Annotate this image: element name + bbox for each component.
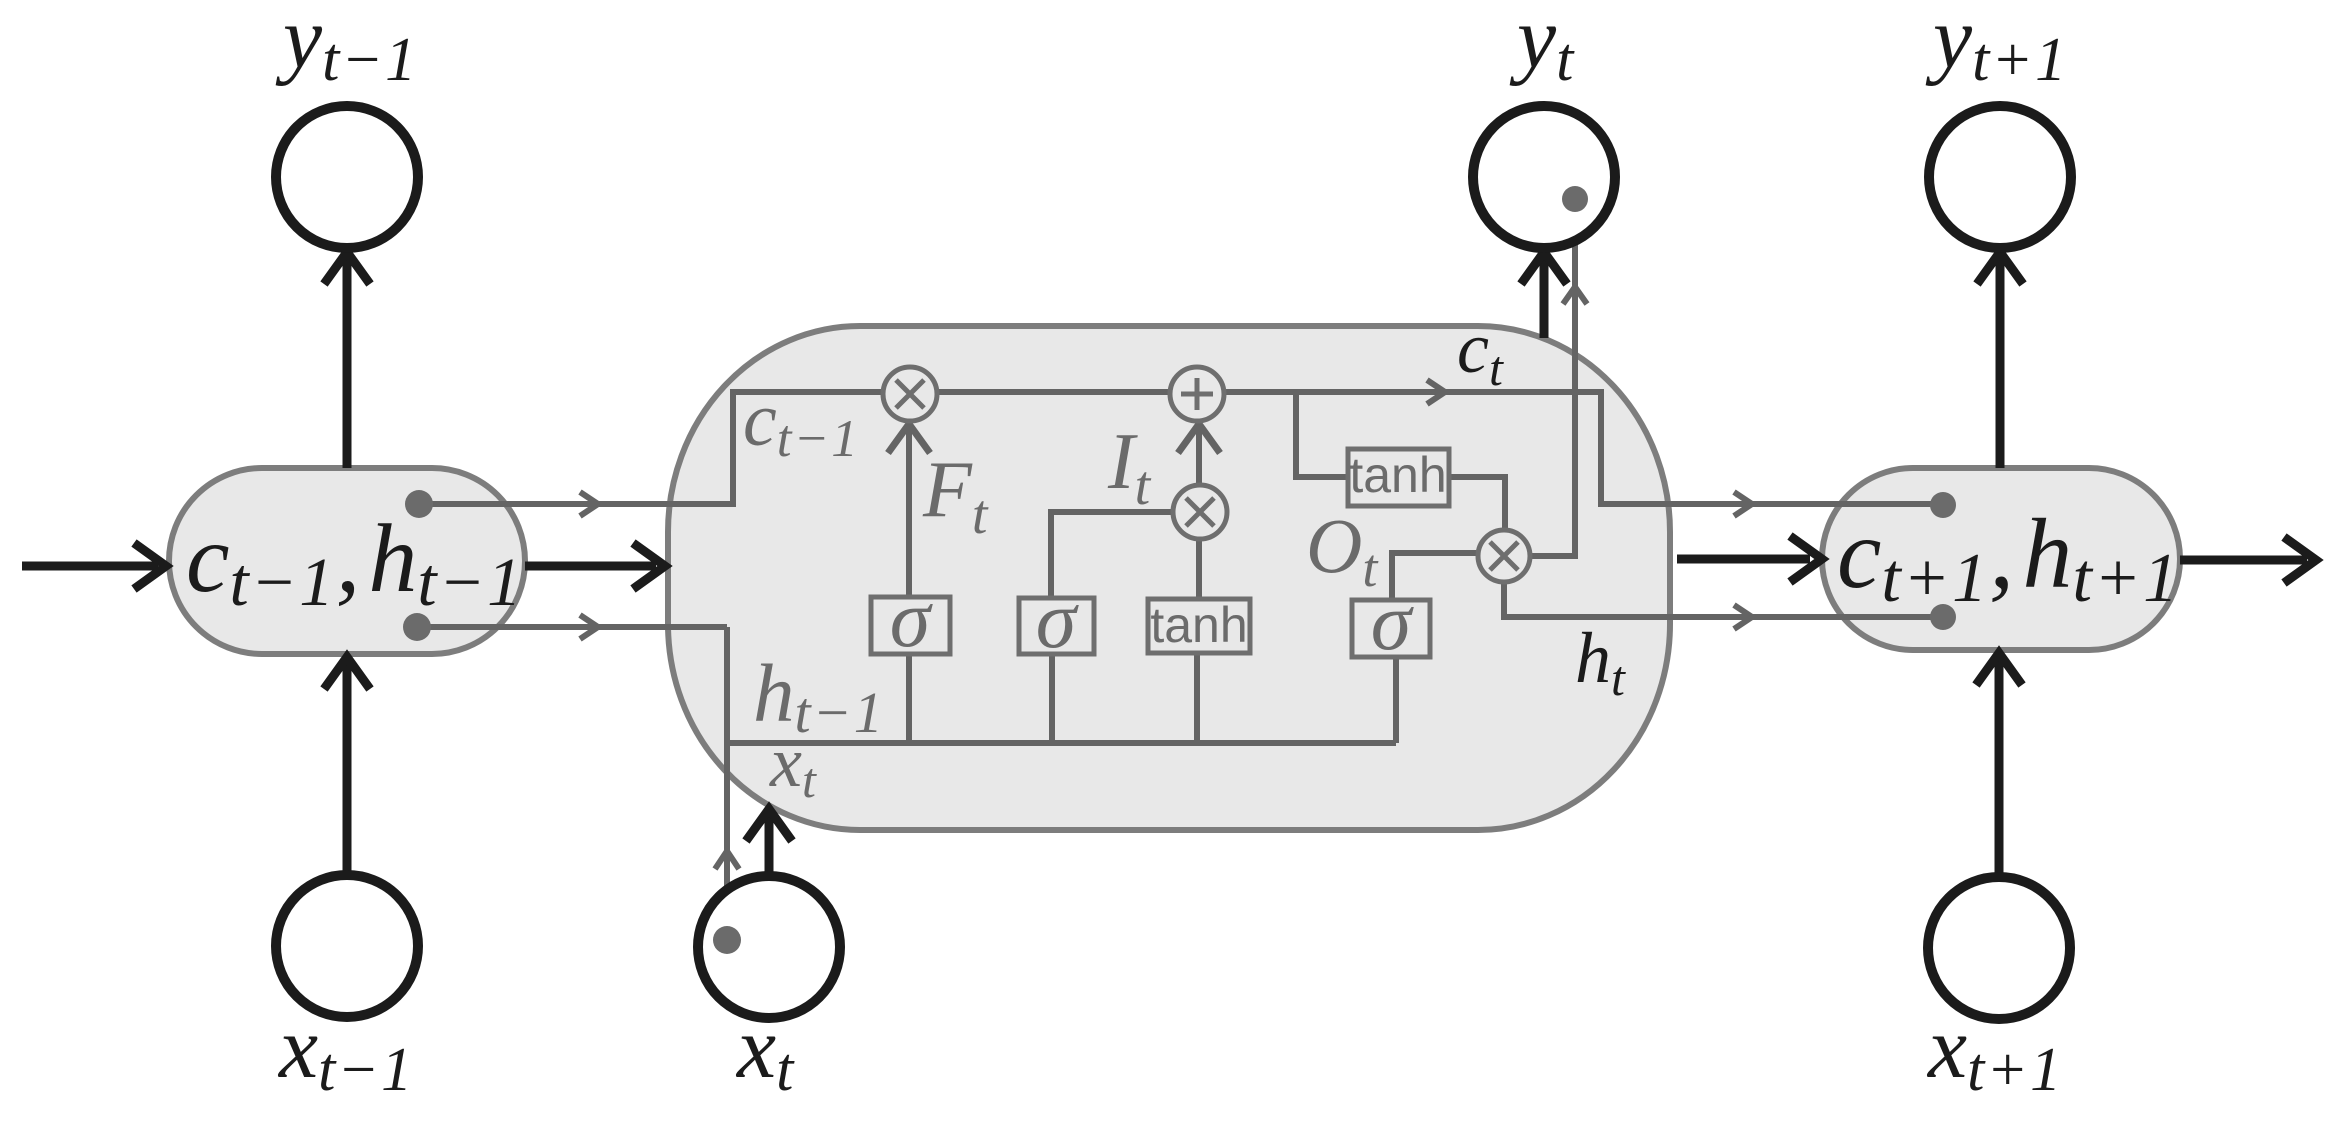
box sigma3 output gate [1352, 576, 1430, 667]
node state pill c_{t-1},h_{t-1} [169, 468, 525, 654]
arrowhead gray F up into times1 [888, 424, 930, 453]
svg-text:tanh: tanh [1150, 597, 1247, 653]
wire black pill1 up to y_{t-1} [324, 252, 370, 468]
junction dot h_t end in pill2 [1930, 604, 1956, 630]
arrowhead gray h input [580, 615, 598, 639]
gate times3 output multiply [1478, 530, 1530, 582]
wire gray branch to tanh1 [1296, 392, 1348, 477]
wire black cell to pill2 [1677, 536, 1822, 582]
junction dot h start in pill1 [403, 613, 431, 641]
wire black input arrow left edge [22, 543, 166, 589]
node y_{t-1} circle [276, 106, 418, 248]
wire black x_{t-1} up to pill1 [324, 657, 370, 875]
arrowhead gray x up [715, 851, 739, 869]
wire black x_t up to cell [746, 809, 792, 875]
arrowhead gray c after plus [1427, 380, 1445, 404]
wire black x_{t+1} up to pill2 [1976, 653, 2022, 875]
wire black output arrow right edge [2180, 537, 2316, 583]
wire gray times2 to tanh2 [1196, 536, 1202, 602]
wire gray times3 up to y_t [1531, 199, 1575, 556]
box tanh2 candidate [1148, 597, 1250, 653]
junction dot h_t in y_t (redrawn above circle) [1562, 186, 1588, 212]
wire stub sigma3 [1393, 657, 1399, 743]
svg-text:tanh: tanh [1349, 447, 1446, 503]
arrowhead gray c exit [1734, 492, 1752, 516]
wire gray c input path [419, 392, 1939, 504]
junction dot c end in pill2 [1930, 492, 1956, 518]
junction dot c start in pill1 [405, 490, 433, 518]
wire stub sigma2 [1049, 654, 1055, 743]
junction dot x_t (redrawn above circle) [713, 926, 741, 954]
svg-text:σ: σ [1371, 576, 1415, 667]
wire gray F_t vertical [906, 423, 912, 598]
junction dot h_t in y_t circle [1562, 186, 1588, 212]
cell body LSTM stadium [668, 326, 1670, 830]
wire black pill2 up to y_{t+1} [1977, 252, 2023, 468]
junction dot x_t in circle [713, 926, 741, 954]
wire gray tanh1 to times3 [1449, 477, 1505, 528]
arrowhead gray h_t exit [1734, 605, 1752, 629]
wire black cell up to y_t [1521, 252, 1567, 338]
gate plus add [1170, 367, 1224, 421]
arrowhead gray c input [580, 492, 598, 516]
svg-text:σ: σ [890, 573, 934, 664]
wire black pill1 to cell [525, 543, 665, 589]
node y_t circle [1473, 106, 1615, 248]
node y_{t+1} circle [1929, 106, 2071, 248]
wire gray I path [1051, 512, 1174, 598]
wire stub sigma1 [906, 654, 912, 743]
wire gray h_t output [1504, 583, 1939, 617]
node x_t circle [698, 876, 840, 1018]
wire stub tanh2 [1194, 653, 1200, 743]
wire gray O path [1392, 553, 1478, 600]
wire gray gate bus [727, 740, 1396, 746]
arrowhead gray up to y_t [1563, 287, 1587, 304]
box sigma1 forget gate [871, 573, 950, 664]
wire gray times2 to plus [1196, 424, 1202, 485]
box tanh1 cell output squash [1348, 447, 1449, 506]
gate times1 forget multiply [883, 367, 937, 421]
gate times2 input multiply [1173, 485, 1227, 539]
svg-text:σ: σ [1036, 574, 1080, 665]
box sigma2 input gate [1019, 574, 1094, 665]
arrowhead gray into plus [1178, 424, 1220, 453]
node x_{t-1} circle [276, 875, 418, 1017]
node x_{t+1} circle [1928, 877, 2070, 1019]
node state pill c_{t+1},h_{t+1} [1822, 468, 2180, 650]
wire gray h input path [415, 624, 727, 630]
wire gray x/h vertical [724, 627, 730, 940]
